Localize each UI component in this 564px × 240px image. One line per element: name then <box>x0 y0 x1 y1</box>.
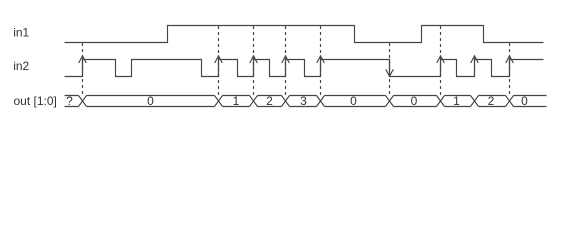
svg-text:2: 2 <box>488 94 495 108</box>
svg-text:in1: in1 <box>13 26 29 40</box>
svg-text:3: 3 <box>300 94 307 108</box>
svg-text:0: 0 <box>350 94 357 108</box>
svg-text:1: 1 <box>233 94 240 108</box>
svg-text:?: ? <box>66 94 73 108</box>
svg-text:out [1:0]: out [1:0] <box>14 94 57 108</box>
svg-text:in2: in2 <box>13 59 29 73</box>
svg-text:2: 2 <box>266 94 273 108</box>
svg-text:0: 0 <box>521 94 528 108</box>
svg-text:1: 1 <box>453 94 460 108</box>
svg-text:0: 0 <box>147 94 154 108</box>
svg-text:0: 0 <box>411 94 418 108</box>
